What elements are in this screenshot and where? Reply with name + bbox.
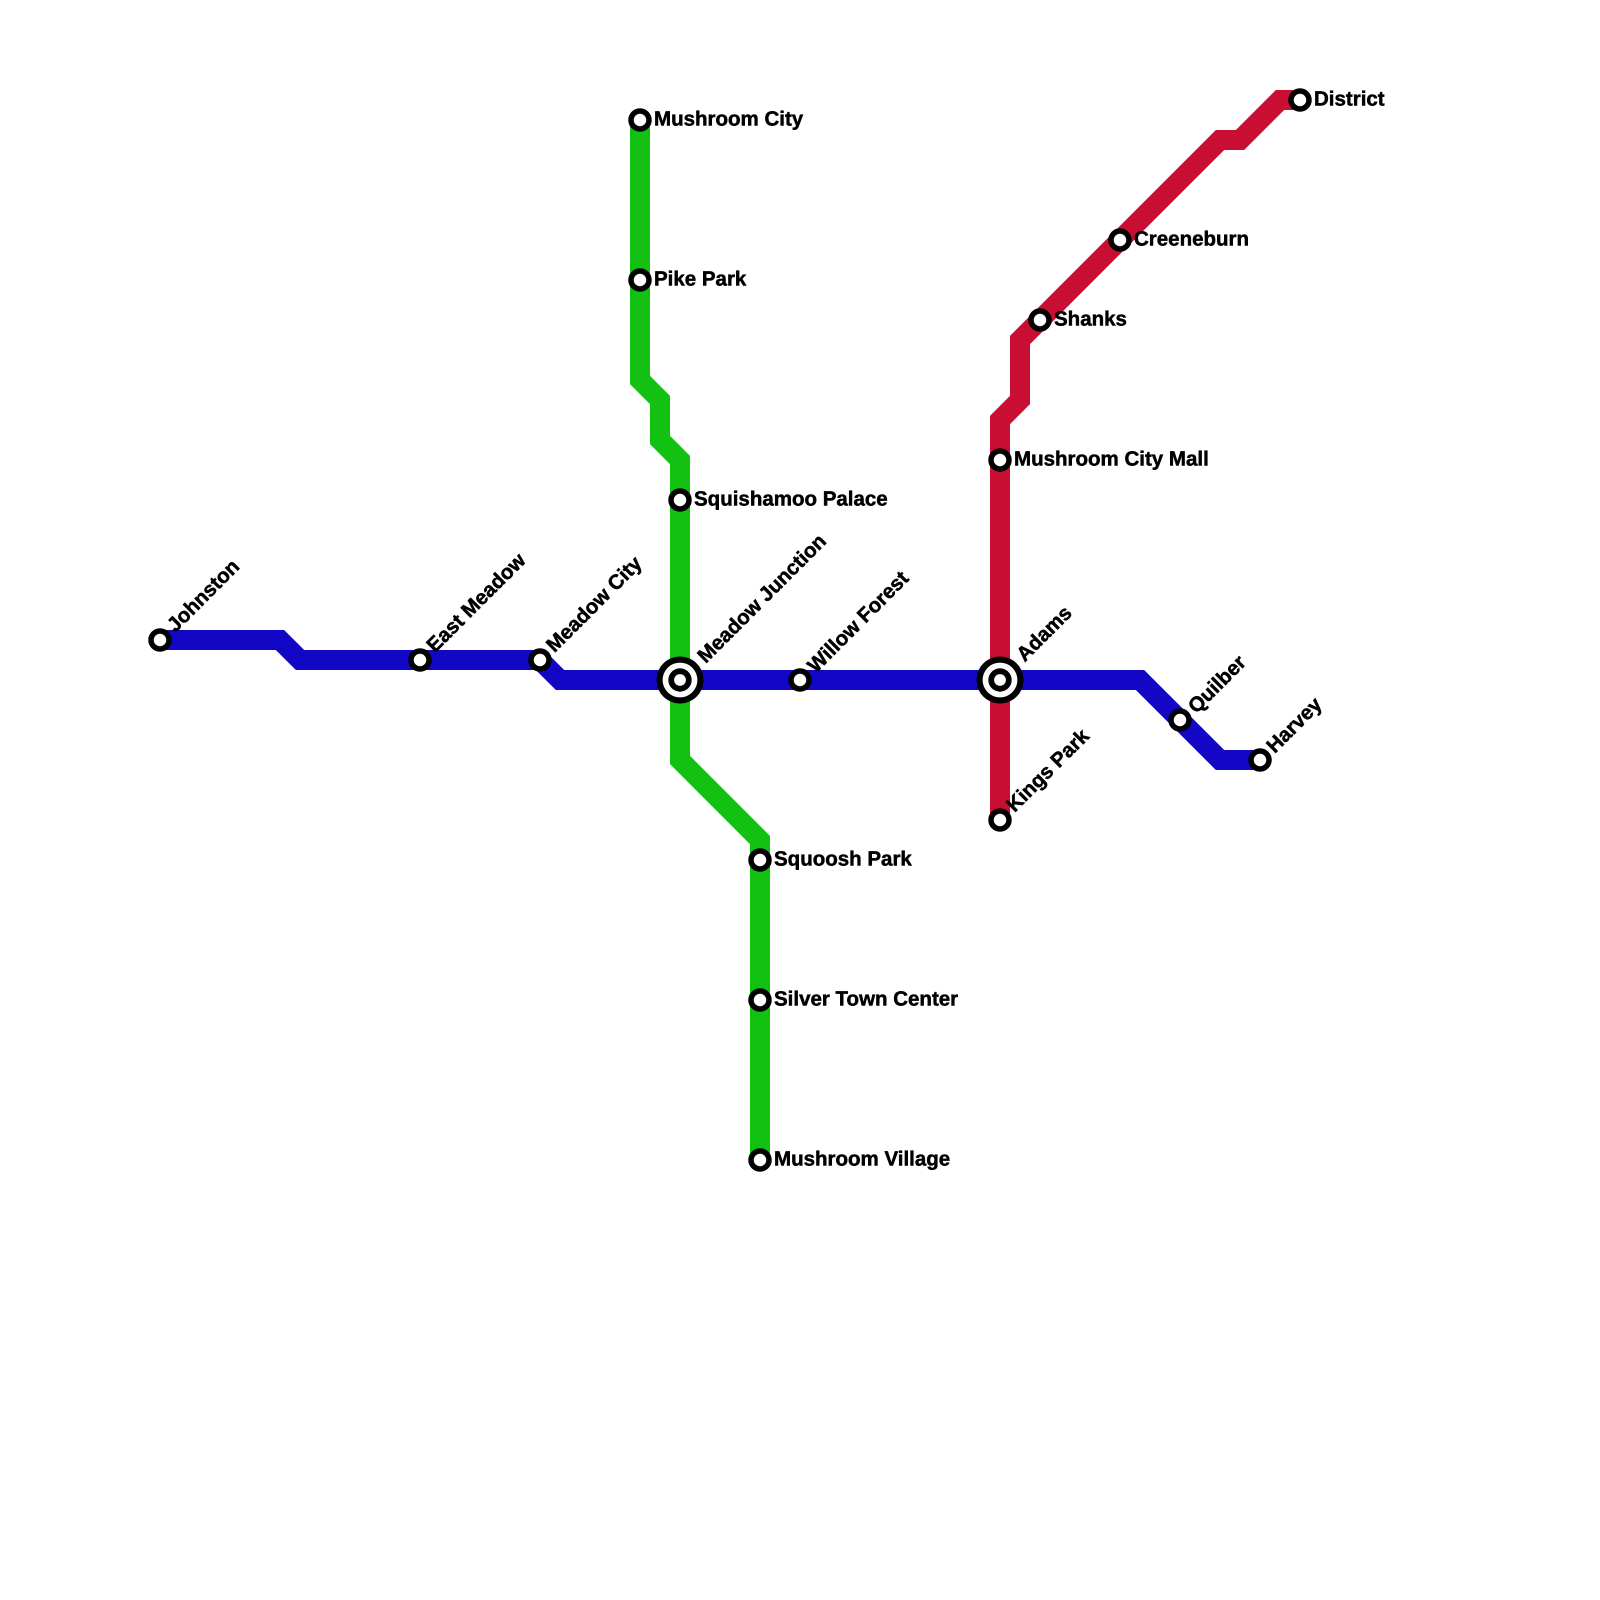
svg-text:Mushroom City Mall: Mushroom City Mall — [1014, 447, 1209, 470]
station East Meadow — [411, 651, 429, 669]
svg-text:District: District — [1314, 87, 1385, 110]
svg-text:Creeneburn: Creeneburn — [1134, 227, 1249, 250]
interchange Meadow Junction — [657, 657, 704, 704]
station Silver Town Center — [751, 991, 769, 1009]
red line (District - Kings Park) — [1000, 100, 1300, 820]
svg-text:Squishamoo Palace: Squishamoo Palace — [694, 487, 888, 510]
station Meadow City — [531, 651, 549, 669]
station Shanks — [1031, 311, 1049, 329]
station Harvey — [1251, 751, 1269, 769]
station Kings Park — [991, 811, 1009, 829]
station Quilber — [1171, 711, 1189, 729]
station Pike Park — [631, 271, 649, 289]
svg-text:Pike Park: Pike Park — [654, 267, 747, 290]
green line (Mushroom City - Mushroom Village) — [640, 120, 760, 1160]
svg-text:Shanks: Shanks — [1054, 307, 1127, 330]
svg-text:Squoosh Park: Squoosh Park — [774, 847, 912, 870]
station Johnston — [151, 631, 169, 649]
station District — [1291, 91, 1309, 109]
svg-text:Mushroom Village: Mushroom Village — [774, 1147, 950, 1170]
interchange Adams — [977, 657, 1024, 704]
station Mushroom City — [631, 111, 649, 129]
svg-text:Silver Town Center: Silver Town Center — [774, 987, 958, 1010]
station Mushroom City Mall — [991, 451, 1009, 469]
station Squoosh Park — [751, 851, 769, 869]
station Willow Forest — [791, 671, 809, 689]
station Creeneburn — [1111, 231, 1129, 249]
blue line (Johnston - Harvey) — [160, 640, 1260, 760]
svg-text:Mushroom City: Mushroom City — [654, 107, 804, 130]
station Squishamoo Palace — [671, 491, 689, 509]
station Mushroom Village — [751, 1151, 769, 1169]
